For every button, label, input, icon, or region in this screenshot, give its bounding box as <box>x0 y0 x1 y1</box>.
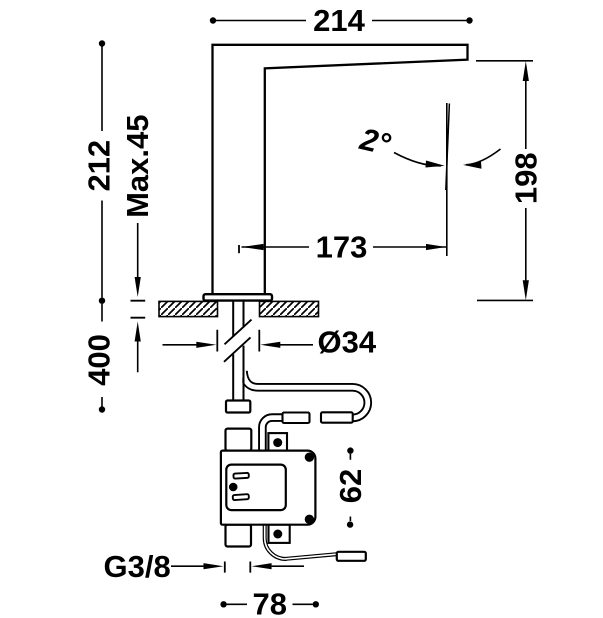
control box bottom-left outlet pipe G3/8 <box>226 525 252 547</box>
dimension 173 <box>239 230 446 265</box>
hose from control box up to connector left <box>262 418 282 451</box>
svg-text:198: 198 <box>508 152 543 204</box>
control box front panel <box>226 465 285 511</box>
svg-text:G3/8: G3/8 <box>104 549 171 584</box>
dimension 400 left <box>82 298 117 413</box>
2-degree arc right with arrowhead <box>463 149 501 169</box>
box corner screw top-right <box>305 453 314 462</box>
Max.45 upper arrow pointing down <box>135 223 141 297</box>
svg-text:Ø34: Ø34 <box>318 325 377 360</box>
tilted 2-degree line <box>446 104 450 191</box>
panel slot lower <box>233 494 249 500</box>
label G3/8 with arrows <box>104 549 305 584</box>
dimension 78 bottom <box>220 587 319 618</box>
shaft mounting nut <box>226 401 250 413</box>
box corner screw bottom-right <box>305 515 314 524</box>
dimension diameter 34 <box>163 325 377 360</box>
svg-text:173: 173 <box>316 230 368 265</box>
Max.45 lower arrow pointing up <box>135 322 141 373</box>
label 2 degrees <box>356 121 394 162</box>
panel slot upper <box>233 473 249 479</box>
svg-text:Max.45: Max.45 <box>120 114 155 217</box>
control box top mounting tab with screw <box>268 433 287 451</box>
Max.45 tick marks <box>131 301 146 318</box>
panel button dot <box>229 483 238 492</box>
svg-text:78: 78 <box>252 587 286 618</box>
threaded shaft below counter <box>233 302 243 401</box>
faucet base flange <box>204 294 273 300</box>
shaft interior mask <box>234 317 242 401</box>
dimension 214 top <box>210 3 473 38</box>
svg-text:400: 400 <box>82 334 117 386</box>
svg-text:62: 62 <box>333 469 368 503</box>
cable end connector <box>337 552 366 561</box>
svg-text:212: 212 <box>82 140 117 192</box>
hose connector right (facing left) <box>321 412 353 422</box>
water stream reference vertical line <box>446 103 448 256</box>
svg-text:214: 214 <box>313 3 365 38</box>
control box main body <box>221 451 316 525</box>
countertop left hatched section <box>159 301 218 316</box>
hose connector left (facing right) <box>283 413 310 424</box>
faucet body outline <box>213 45 468 296</box>
dimension 212 left <box>82 40 117 297</box>
supply hose from shaft to U-turn and connector <box>244 371 368 418</box>
shaft break slash marks <box>224 320 252 362</box>
dimension 198 right extension lines <box>476 61 533 301</box>
sensor cable from box bottom looping right <box>265 525 337 559</box>
dimension 62 right of box <box>333 447 368 527</box>
control box bottom mounting tab with screw <box>269 525 290 543</box>
2-degree arc left with arrowhead <box>394 153 445 168</box>
countertop right hatched section <box>260 301 319 316</box>
label Max.45 <box>120 114 155 217</box>
control box top-left inlet pipe <box>226 429 252 451</box>
dimension 198 vertical line with arrows <box>508 61 543 300</box>
